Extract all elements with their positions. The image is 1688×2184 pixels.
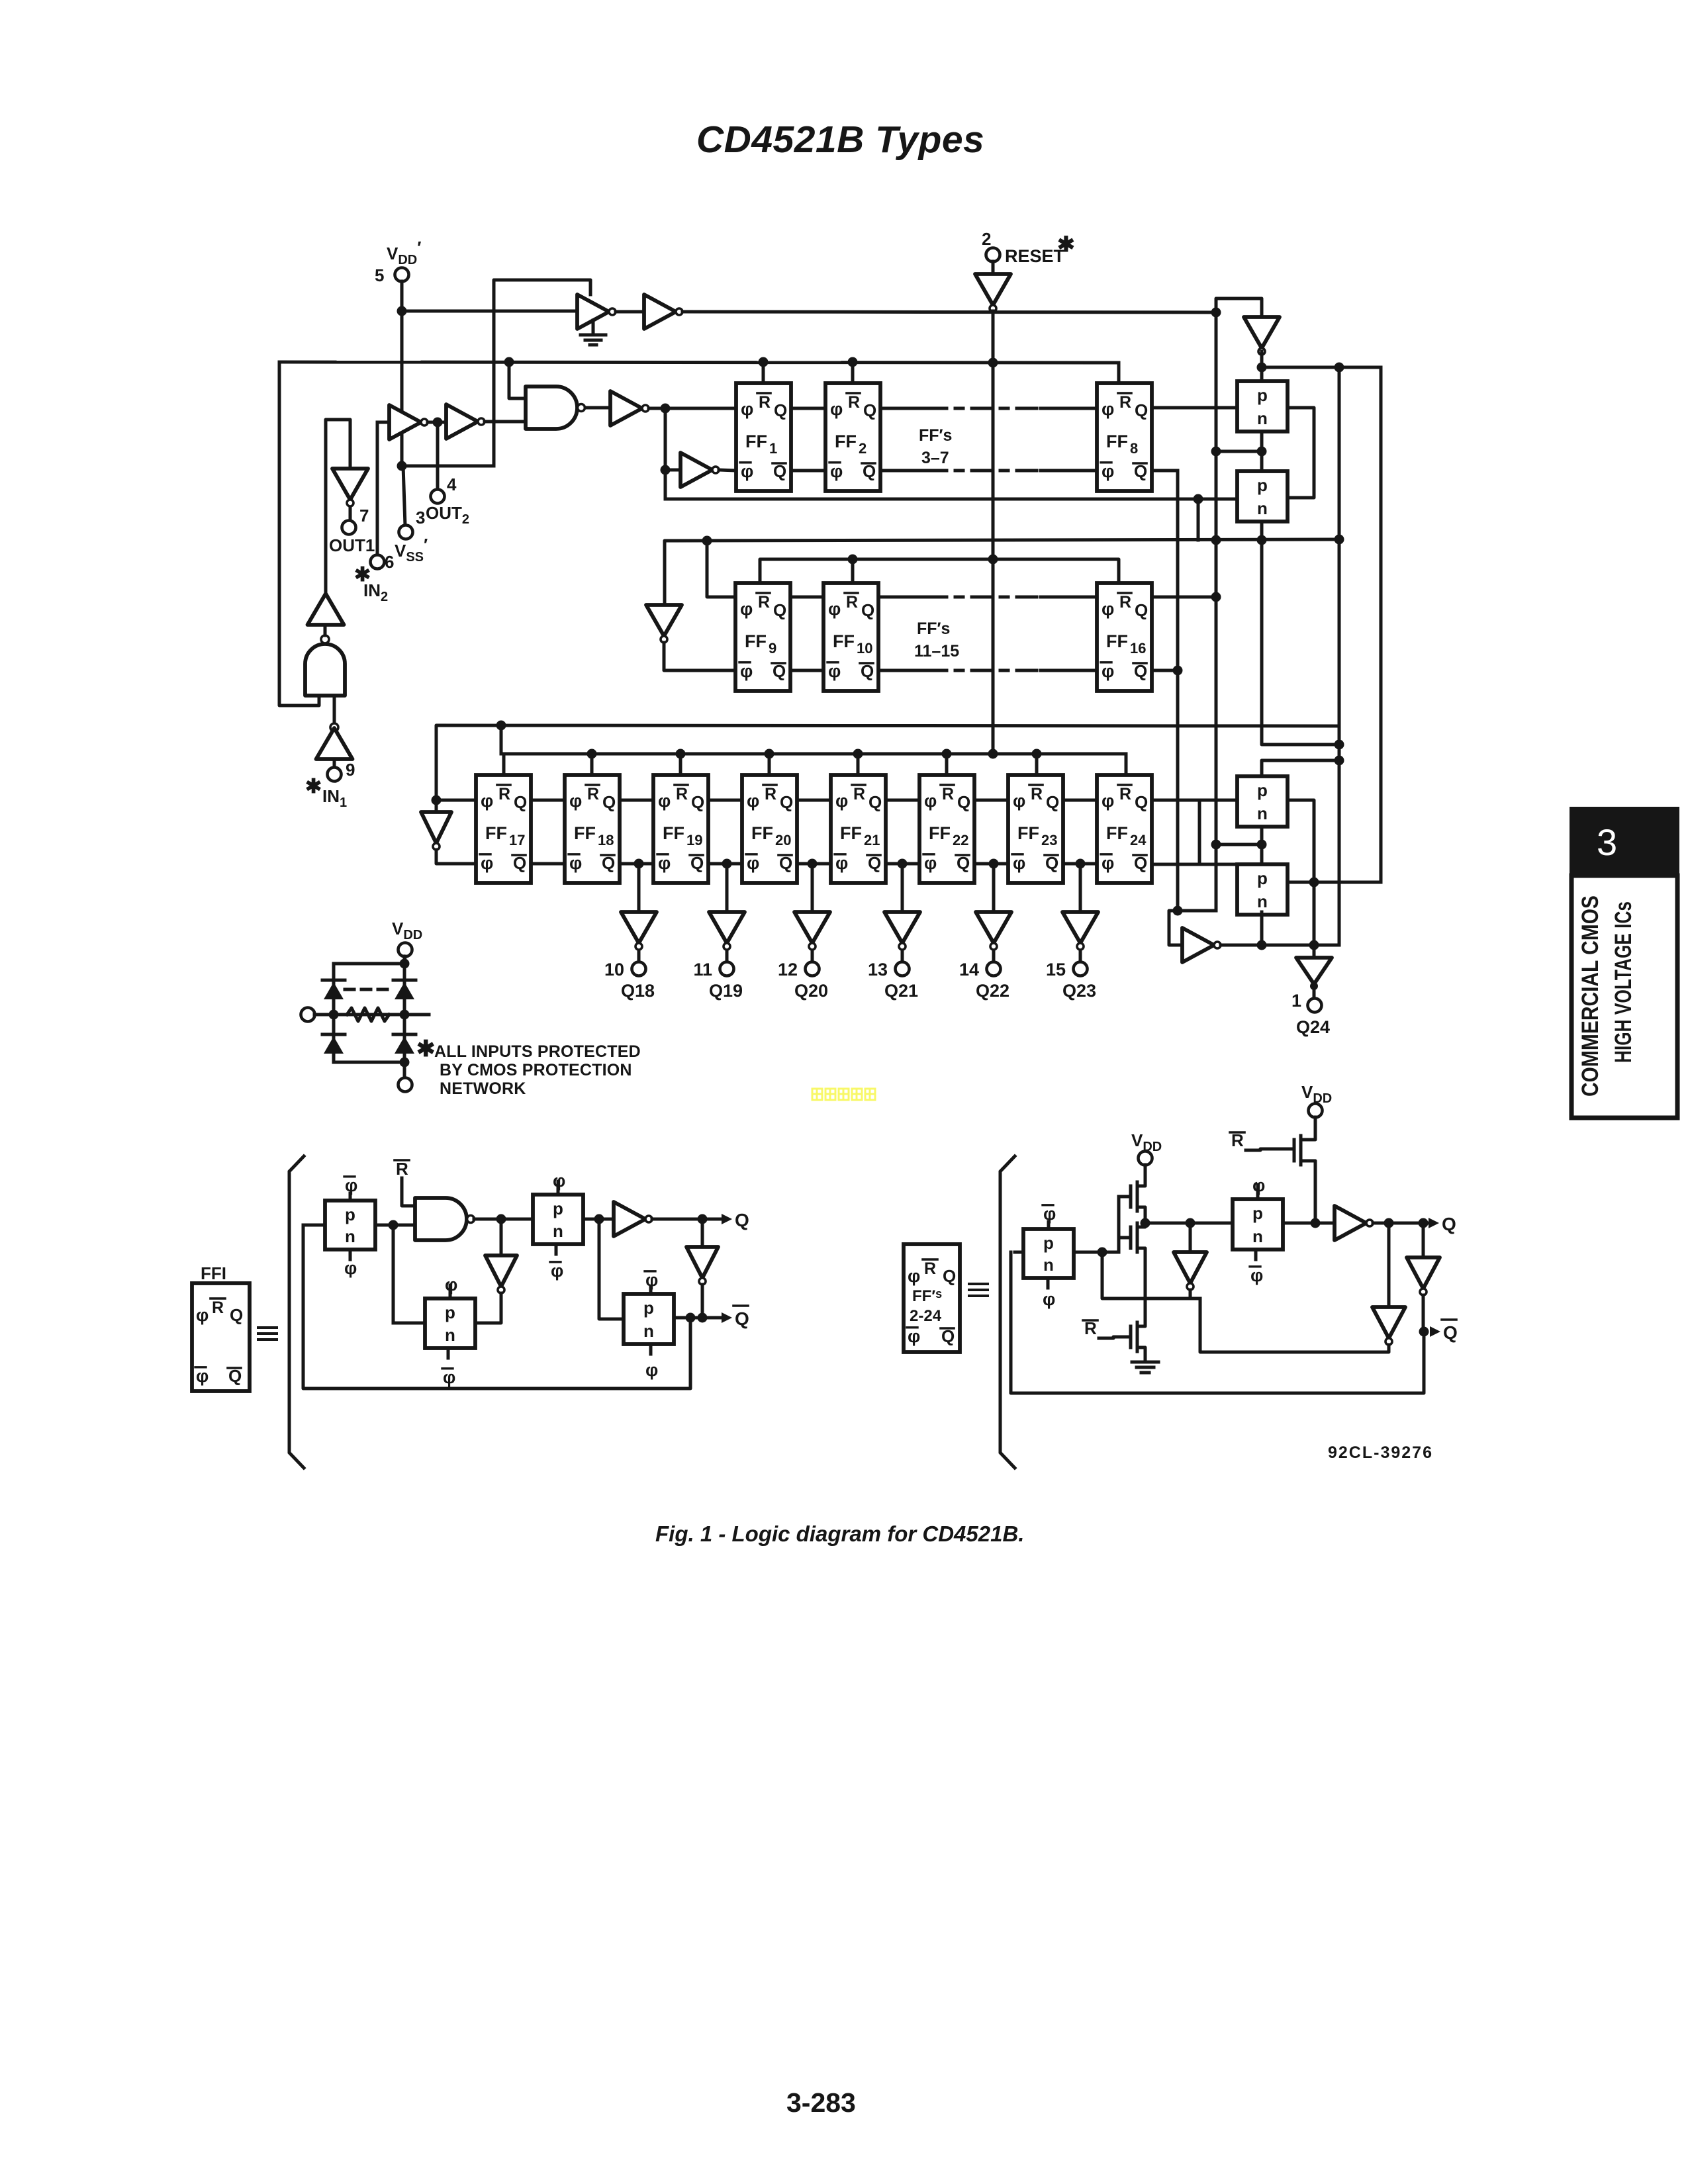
svg-text:Q: Q — [861, 600, 874, 620]
wire OUT2 drop — [436, 422, 440, 490]
svg-text:RESET: RESET — [1005, 246, 1065, 266]
wire Q chain 936-987 — [620, 799, 653, 802]
wire into FF16 phi — [1041, 596, 1097, 599]
svg-text:φ: φ — [835, 791, 848, 811]
svg-text:17: 17 — [509, 832, 525, 848]
NAND gate G1 — [526, 387, 577, 429]
wire U5 to FF1 phi — [649, 407, 736, 410]
inverter U8 (points up) — [308, 594, 344, 625]
wire U22 to Qbar — [1422, 1295, 1425, 1332]
wire FF9.Q to FF10 — [790, 596, 823, 599]
node reset/row3 bus — [988, 749, 998, 759]
wire pn4 right link — [1288, 881, 1314, 884]
wire pnB phibar stub — [555, 1244, 558, 1254]
svg-text:φ: φ — [196, 1305, 209, 1325]
wire bridge over to inverter U13 — [1216, 298, 1262, 317]
wire pnD to Qbar — [674, 1316, 724, 1320]
wire pn3 right chain — [1288, 800, 1314, 960]
node feedback Qbar — [686, 1313, 696, 1323]
flip-flop FF16 — [1097, 583, 1152, 691]
svg-text:φ: φ — [741, 461, 753, 481]
wire dashed diode link — [345, 988, 393, 991]
wire x=746 lower — [492, 420, 496, 466]
wire pair output to pnF — [1145, 1222, 1233, 1225]
svg-text:R: R — [396, 1159, 408, 1179]
wire pnF phibar stub — [1254, 1250, 1258, 1259]
wire clockbar to bottom bus — [664, 470, 667, 499]
pn box C — [425, 1298, 475, 1348]
bracket right equivalent — [1000, 1156, 1015, 1468]
svg-text:Q: Q — [514, 792, 527, 812]
svg-text:19: 19 — [686, 832, 702, 848]
svg-text:22: 22 — [953, 832, 968, 848]
wire protection bottom — [334, 1061, 404, 1064]
node FF10 reset stub — [848, 555, 858, 565]
wire Q19 drop — [726, 864, 729, 912]
svg-text:14: 14 — [959, 960, 979, 979]
wire pnE phibar stub — [1047, 1222, 1051, 1229]
loop wire over top inverters — [494, 280, 590, 420]
pin 2 RESET — [986, 248, 1000, 262]
svg-text:9: 9 — [769, 640, 776, 657]
VDD terminal (protection) — [399, 943, 412, 957]
wire U9 to G2 — [333, 696, 336, 723]
inverter U14 — [1182, 928, 1214, 962]
wire Q22 stub — [992, 950, 996, 962]
arrow Qbar right equiv — [1430, 1326, 1440, 1337]
node FF9 phi tap — [702, 536, 712, 546]
wire FF2.Qbar out — [880, 469, 927, 473]
input terminal (protection) — [301, 1008, 315, 1022]
svg-text:φ: φ — [747, 853, 759, 873]
svg-text:FF: FF — [574, 823, 596, 843]
node bottom bus / pn2 — [1194, 494, 1203, 504]
pin 10 Q18 — [632, 962, 646, 976]
inverter Q23 driver — [1062, 912, 1098, 943]
wire OUT1 node — [326, 420, 350, 594]
node FF1 reset stub — [759, 357, 769, 367]
wire R-bar to NAND G3 — [402, 1178, 415, 1206]
flip-flop FF9 — [735, 583, 790, 691]
wire pnB node to pnD — [599, 1219, 624, 1319]
node pin5/top line — [397, 306, 407, 316]
svg-text:✱: ✱ — [416, 1036, 436, 1062]
svg-text:9: 9 — [346, 760, 355, 780]
inverter U19 — [1174, 1252, 1207, 1283]
wire row2 clock line — [665, 539, 1339, 605]
wire clock to inverted clock — [664, 408, 667, 470]
flip-flop FF1 — [736, 383, 791, 491]
node Q19 tap — [722, 859, 732, 869]
svg-text:12: 12 — [778, 960, 798, 979]
inverter U20 — [1335, 1206, 1366, 1240]
svg-text:Q: Q — [943, 1266, 956, 1286]
svg-text:15: 15 — [1046, 960, 1066, 979]
wire FF1.Qbar to FF2 — [791, 469, 825, 473]
wire pnB to inverter U17 — [583, 1218, 614, 1221]
sidebar bordered box — [1571, 876, 1677, 1118]
svg-text:Q: Q — [1135, 600, 1148, 620]
inverter U4 — [446, 404, 478, 439]
pin 11 Q19 — [720, 962, 734, 976]
node Q21 tap — [898, 859, 908, 869]
svg-text:φ: φ — [830, 399, 843, 419]
svg-text:n: n — [1257, 803, 1268, 823]
inverter Q21 driver — [884, 912, 920, 943]
wire row1 bottom bus — [665, 498, 1198, 501]
svg-text:20: 20 — [775, 832, 791, 848]
svg-text:5: 5 — [375, 265, 384, 285]
diode D3 — [322, 1033, 345, 1036]
svg-text:4: 4 — [447, 475, 457, 494]
node x=2023 y=1149 — [1335, 756, 1344, 766]
svg-text:8: 8 — [1130, 440, 1138, 457]
wire Q20 drop — [811, 864, 814, 912]
node x=2023 y=815 — [1335, 535, 1344, 545]
wire U11 to FF9 phibar — [664, 643, 735, 670]
node protection mid-left — [329, 1010, 339, 1020]
wire dashed FF11-15 Q chain — [927, 596, 1041, 599]
pn box B — [533, 1195, 583, 1244]
pin 7 OUT1 — [342, 521, 356, 535]
wire Q chain 802-853 — [531, 799, 565, 802]
svg-text:Q18: Q18 — [621, 981, 655, 1001]
inverter U6 — [680, 453, 712, 487]
svg-text:Q23: Q23 — [1062, 981, 1096, 1001]
inverter U5 — [610, 391, 642, 426]
svg-text:Q: Q — [691, 792, 704, 812]
wire protection left leg — [332, 964, 336, 1062]
wire to inverter U16 — [500, 1219, 503, 1255]
svg-text:R: R — [765, 785, 776, 803]
inverter Q18 driver — [621, 912, 657, 943]
wire FF10 reset stub — [851, 559, 855, 583]
resistor R1 — [347, 1008, 389, 1021]
svg-text:φ: φ — [830, 461, 843, 481]
svg-text:φ: φ — [747, 791, 759, 811]
svg-text:φ: φ — [924, 853, 937, 873]
node x=1837 y=1276 — [1211, 840, 1221, 850]
svg-text:R: R — [587, 785, 599, 803]
svg-text:3-283: 3-283 — [786, 2087, 856, 2118]
svg-text:n: n — [1252, 1226, 1263, 1246]
wire into FF16 phibar — [1041, 669, 1097, 672]
wire FF24.Qbar to pn — [1152, 863, 1237, 866]
pin 3 VSS' — [399, 525, 413, 539]
node reset/row2 bus — [988, 555, 998, 565]
svg-text:FFI: FFI — [201, 1263, 226, 1283]
wire pnA phi stub — [349, 1250, 352, 1259]
svg-text:φ: φ — [828, 661, 841, 681]
svg-text:92CL‑39276: 92CL‑39276 — [1328, 1443, 1433, 1462]
svg-text:φ: φ — [1102, 399, 1114, 419]
node OUT2 tap — [433, 418, 443, 428]
wire y=555 to right loops — [1262, 366, 1381, 369]
transmission gate pn1 — [1237, 381, 1288, 432]
wire row3 clock line — [436, 725, 1339, 812]
wire feedback join — [1190, 1297, 1200, 1300]
wire FF24.Q to pn — [1152, 799, 1237, 802]
svg-text:φ: φ — [835, 853, 848, 873]
svg-text:φ: φ — [924, 791, 937, 811]
wire pnD phibar stub — [649, 1287, 653, 1294]
node reset/row1 bus — [988, 358, 998, 368]
wire Q chain 1338-1389 — [886, 799, 919, 802]
node gate input — [1098, 1248, 1107, 1257]
svg-text:21: 21 — [864, 832, 880, 848]
svg-text:φ: φ — [1102, 461, 1114, 481]
wire VDD to PMOS — [1144, 1165, 1147, 1182]
transmission gate pn4 — [1237, 864, 1288, 915]
wire FF9.Qbar to FF10 — [790, 669, 823, 672]
node Q feedback tap — [1384, 1218, 1394, 1228]
svg-text:Q: Q — [1443, 1322, 1458, 1343]
wire FF24 reset stub — [1125, 754, 1128, 775]
wire U4 to NAND G1 input — [485, 420, 526, 424]
svg-text:p: p — [553, 1199, 563, 1218]
wire feedback loop left equiv — [303, 1225, 690, 1388]
svg-text:R: R — [676, 785, 688, 803]
wire dashed FF3-7 Qbar chain — [927, 469, 1041, 473]
svg-text:FF: FF — [929, 823, 951, 843]
wire Q chain 1204-1255 — [797, 799, 831, 802]
wire pnA phibar stub — [349, 1193, 352, 1201]
svg-text:p: p — [345, 1205, 355, 1224]
node reset stub x=1296 — [853, 749, 863, 759]
svg-text:FF: FF — [833, 631, 855, 651]
wire FF9 phi feed — [707, 541, 735, 597]
wire into FF8 phibar — [1041, 469, 1097, 473]
svg-text:n: n — [1257, 408, 1268, 428]
wire G2 feedback loop — [279, 362, 319, 705]
svg-text:p: p — [1043, 1233, 1054, 1253]
svg-text:BY CMOS PROTECTION: BY CMOS PROTECTION — [440, 1061, 632, 1079]
wire dashed FF11-15 Qbar chain — [927, 669, 1041, 672]
svg-text:Q: Q — [868, 792, 882, 812]
svg-text:R: R — [853, 785, 865, 803]
svg-text:φ: φ — [481, 853, 493, 873]
svg-text:φ: φ — [551, 1261, 563, 1281]
pn box D — [624, 1294, 674, 1344]
FF's 2-24 reference box — [904, 1244, 960, 1352]
svg-text:1: 1 — [769, 440, 777, 457]
transmission gate pn3 — [1237, 776, 1288, 827]
wire pn3 top feed — [1262, 760, 1339, 776]
wire pn4 bottom stub — [1260, 912, 1264, 945]
svg-text:✱: ✱ — [305, 776, 322, 797]
svg-text:Q: Q — [774, 400, 787, 420]
pn box E — [1023, 1229, 1074, 1278]
node Q24 feed — [1309, 940, 1319, 950]
wire VDD stub — [404, 956, 405, 964]
svg-text:φ: φ — [908, 1266, 920, 1286]
wire row2 reset bus — [760, 559, 1119, 583]
inverter U17 — [614, 1202, 645, 1236]
wire reset stub x=1566 — [1035, 754, 1039, 775]
svg-text:Q: Q — [230, 1305, 243, 1325]
svg-text:6: 6 — [385, 552, 394, 572]
node Q22 tap — [989, 859, 999, 869]
node row3 bus riser — [496, 721, 506, 731]
svg-text:R: R — [1119, 785, 1131, 803]
node Q left equiv — [698, 1214, 708, 1224]
node U18 output — [698, 1313, 708, 1323]
wire jog to inverter U14 — [1169, 911, 1216, 945]
wire x=1837 to pn node — [1216, 450, 1262, 453]
node FF1 clock — [661, 404, 671, 414]
wire U14 output y=1428 — [1221, 944, 1339, 947]
wire pnA to NAND G3 — [375, 1224, 415, 1227]
flip-flop FF22 — [919, 775, 974, 883]
wire U19 feedback to gate node — [1102, 1252, 1190, 1298]
svg-text:FF: FF — [745, 432, 767, 451]
svg-text:Q: Q — [1135, 400, 1148, 420]
svg-text:FF: FF — [485, 823, 507, 843]
svg-text:7: 7 — [359, 506, 369, 525]
node Q18 tap — [634, 859, 644, 869]
wire pn2 bottom to bridge — [1262, 522, 1339, 745]
svg-text:R: R — [848, 393, 860, 412]
svg-text:R: R — [758, 593, 770, 612]
svg-text:φ: φ — [481, 791, 493, 811]
bracket left equivalent — [289, 1156, 304, 1468]
wire dashed FF3-7 Q chain — [927, 407, 1041, 410]
wire FF17 reset stub — [502, 754, 506, 775]
wire NMOS source to reset NMOS — [1144, 1259, 1147, 1322]
wire Qbar chain 1070-1121 — [708, 862, 742, 866]
wire IN1 to U9 — [333, 759, 336, 768]
wire Qbar chain 1338-1389 — [886, 862, 919, 866]
node FF1 clock-bar — [661, 465, 671, 475]
wire U20 to Q — [1373, 1222, 1430, 1225]
wire reset stub x=1430 — [945, 754, 949, 775]
wire Q18 stub — [637, 950, 641, 962]
transmission gate pn2 — [1237, 471, 1288, 522]
svg-text:n: n — [1257, 891, 1268, 911]
wire FF1 reset stub — [762, 362, 765, 383]
wire y=704 horizontal — [402, 465, 494, 468]
arrow Q left equiv — [722, 1214, 732, 1224]
wire top line to inverter — [402, 310, 577, 313]
wire input to pnA — [303, 1224, 325, 1227]
inverter Q20 driver — [794, 912, 830, 943]
wire x=2023 right loop — [1338, 367, 1341, 945]
svg-text:Q: Q — [735, 1210, 749, 1230]
wire FF16.Qbar to right network — [1152, 669, 1178, 672]
wire Q-Qbar link x=1812 — [1198, 800, 1201, 864]
svg-text:φ: φ — [196, 1366, 209, 1386]
wire G2 bubble to U8 — [324, 625, 327, 635]
node pn3-pn4 — [1257, 840, 1267, 850]
svg-text:φ: φ — [645, 1360, 658, 1380]
svg-text:NETWORK: NETWORK — [440, 1079, 526, 1098]
flip-flop FF10 — [823, 583, 878, 691]
wire reset stub x=894 — [590, 754, 594, 775]
arrow Q right equiv — [1429, 1218, 1439, 1228]
svg-text:Q: Q — [602, 792, 616, 812]
wire U21 feedback — [1200, 1298, 1389, 1352]
wire NMOS gate lead — [1119, 1236, 1131, 1240]
node y=555 x=2023 — [1335, 363, 1344, 373]
wire Q23 drop — [1079, 864, 1082, 912]
svg-text:φ: φ — [658, 853, 671, 873]
bubble G2 output — [321, 635, 329, 643]
wire Q20 stub — [811, 950, 814, 962]
svg-text:φ: φ — [1102, 791, 1114, 811]
svg-text:φ: φ — [908, 1326, 920, 1346]
pin 12 Q20 — [806, 962, 820, 976]
svg-text:φ: φ — [1102, 599, 1114, 619]
svg-text:HIGH VOLTAGE ICs: HIGH VOLTAGE ICs — [1611, 901, 1636, 1063]
svg-text:p: p — [1252, 1203, 1263, 1223]
wire U6 to FF1 phibar — [719, 470, 736, 471]
yellow watermark — [812, 1089, 875, 1100]
pin 4 OUT2 — [431, 490, 445, 504]
svg-text:R: R — [846, 593, 858, 612]
flip-flop FF2 — [825, 383, 880, 491]
wire U3 to U4 — [428, 421, 446, 424]
svg-text:FF: FF — [1106, 631, 1128, 651]
node x=1837 y=816 — [1211, 535, 1221, 545]
wire FF17 phi feed — [436, 799, 476, 802]
node Q23 tap — [1076, 859, 1086, 869]
wire x=2086 right loop — [1380, 367, 1383, 882]
node Q20 tap — [808, 859, 818, 869]
wire pnA node to pnC — [392, 1225, 395, 1323]
wire reset PMOS gate lead — [1246, 1149, 1294, 1150]
wire Qbar chain 802-853 — [531, 862, 565, 866]
pin 6 IN2 — [371, 555, 385, 569]
diode D2 — [393, 979, 416, 982]
node Qbar driver tap — [1419, 1218, 1429, 1228]
node reset stub x=1162 — [765, 749, 774, 759]
wire pnF phi stub — [1256, 1185, 1260, 1199]
node reset stub x=1566 — [1032, 749, 1042, 759]
svg-text:n: n — [1257, 498, 1268, 518]
svg-text:R: R — [1119, 593, 1131, 612]
svg-text:Q: Q — [773, 600, 786, 620]
node reset stub x=1028 — [676, 749, 686, 759]
wire RESET to inverter — [992, 261, 995, 274]
wire U17 to Q — [652, 1218, 724, 1221]
flip-flop FF17 — [476, 775, 531, 883]
node pn2 bottom / row2 clock — [1257, 535, 1267, 545]
VDD terminal (reset PMOS) — [1309, 1104, 1323, 1118]
svg-text:Q21: Q21 — [884, 981, 918, 1001]
wire x=1779 vertical — [1176, 471, 1180, 911]
node protection bottom — [400, 1058, 410, 1068]
node x=2023 y=1125 — [1335, 740, 1344, 750]
inverter U22 — [1407, 1257, 1440, 1289]
node FF16.Qbar — [1173, 666, 1183, 676]
svg-text:2: 2 — [982, 229, 991, 249]
node top line / bridge — [1211, 308, 1221, 318]
svg-text:FF: FF — [745, 631, 767, 651]
arrow Qbar left equiv — [722, 1312, 732, 1323]
node FF16.Q — [1211, 592, 1221, 602]
NAND gate G2 (dome top) — [305, 644, 345, 696]
wire bus to NAND G1 top input — [509, 362, 526, 398]
wire Qbar chain 1204-1255 — [797, 862, 831, 866]
svg-text:3: 3 — [1597, 821, 1617, 863]
node pn1-pn2 — [1257, 447, 1267, 457]
wire gate vertical — [1117, 1197, 1121, 1252]
diode D1 — [322, 979, 345, 982]
wire input to pnE — [1015, 1251, 1023, 1254]
wire FF16.Q to right network — [1152, 596, 1216, 599]
equivalence sign left — [258, 1326, 277, 1329]
wire pnB phi stub — [557, 1181, 560, 1195]
